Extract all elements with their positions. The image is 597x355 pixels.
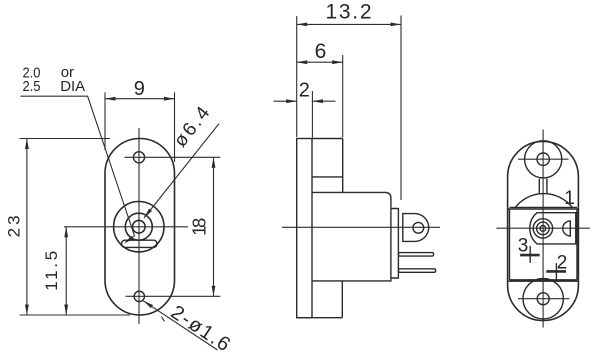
body outline xyxy=(312,192,391,281)
dimension 9 extension left xyxy=(104,92,106,150)
leader for 2-dia1.6 xyxy=(143,301,217,350)
horizontal centerline jack xyxy=(64,226,188,228)
dimension 9 extension right xyxy=(174,92,176,162)
jack outer circle xyxy=(114,202,164,252)
dimension 23 line xyxy=(26,139,28,316)
rear step xyxy=(391,209,399,279)
svg-text:18: 18 xyxy=(189,218,210,236)
body top chord xyxy=(510,206,578,208)
dimension 2 extension right xyxy=(311,91,313,138)
svg-text:13.2: 13.2 xyxy=(326,1,372,24)
horizontal centerline top hole xyxy=(125,156,221,158)
top boss centerline xyxy=(518,158,569,160)
vertical centerline front view xyxy=(138,128,140,324)
jack center pin circle xyxy=(133,220,146,233)
stray tick mark xyxy=(162,317,165,322)
svg-text:1: 1 xyxy=(564,188,575,209)
dome arc xyxy=(515,194,572,208)
svg-text:6: 6 xyxy=(315,40,327,63)
bottom boss centerline xyxy=(518,298,570,300)
rear view obround outline xyxy=(508,141,579,320)
top block bottom edge xyxy=(312,176,343,178)
D shaped opening xyxy=(563,221,571,236)
terminal circle outer xyxy=(533,219,552,238)
svg-text:9: 9 xyxy=(134,78,145,100)
bottom boss circle xyxy=(523,279,563,319)
dimension 6 extension right xyxy=(342,55,344,138)
connector line right xyxy=(546,179,548,194)
pin upper xyxy=(398,253,433,257)
terminal circle middle xyxy=(537,222,550,235)
right tab edge xyxy=(575,213,577,244)
dimension 6 line xyxy=(297,61,343,63)
dimension 13.2 extension left xyxy=(296,16,298,137)
terminal housing xyxy=(530,213,576,244)
bottom edge flange and block xyxy=(297,317,343,319)
horizontal centerline bottom hole xyxy=(126,295,221,297)
jack ring circle xyxy=(125,213,152,240)
dimension 2 line left xyxy=(274,100,297,102)
top boss hole xyxy=(537,153,549,165)
eyelet hole xyxy=(413,222,424,233)
body bottom line outer xyxy=(508,280,579,282)
svg-text:2.5: 2.5 xyxy=(23,78,41,95)
rear vertical centerline xyxy=(542,130,544,328)
svg-text:DIA: DIA xyxy=(60,78,85,95)
terminal 2 symbol xyxy=(546,270,566,273)
dimension 18 line xyxy=(213,157,215,296)
dimension 23 extension top xyxy=(20,138,111,140)
contact slot xyxy=(122,240,158,247)
flange plate xyxy=(297,139,312,318)
dimension 9 line xyxy=(105,98,175,100)
dimension 13.2 extension right xyxy=(400,16,402,201)
svg-text:3: 3 xyxy=(518,236,529,257)
leader for dia 6.4 xyxy=(144,124,219,218)
connector line left xyxy=(538,179,540,194)
pin lower xyxy=(398,269,435,273)
top boss circle xyxy=(525,141,562,178)
body bottom line inner xyxy=(510,279,578,281)
top mounting hole xyxy=(133,152,144,163)
dimension 2 line right xyxy=(312,100,335,102)
top block top edge xyxy=(312,138,343,140)
terminal 3 symbol xyxy=(520,254,540,257)
top block right edge xyxy=(342,139,344,193)
svg-text:2: 2 xyxy=(299,80,310,102)
svg-text:11.5: 11.5 xyxy=(42,251,61,291)
bottom boss hole xyxy=(537,293,549,305)
body right edge xyxy=(576,209,578,280)
rear horizontal centerline xyxy=(497,227,591,229)
leader for 2.0/2.5 DIA note xyxy=(21,96,135,242)
front view body outline (obround) xyxy=(105,139,175,316)
side view horizontal centerline xyxy=(282,226,440,228)
bottom mounting hole xyxy=(134,291,144,301)
terminal circle inner xyxy=(540,226,546,232)
bottom block right edge xyxy=(341,281,343,318)
dimension 11.5 line xyxy=(65,227,67,315)
body top line xyxy=(508,208,579,210)
body left edge xyxy=(509,209,511,280)
dimension 13.2 line xyxy=(297,23,401,25)
dimension 23 extension bottom xyxy=(20,314,131,316)
eyelet terminal xyxy=(403,214,429,242)
